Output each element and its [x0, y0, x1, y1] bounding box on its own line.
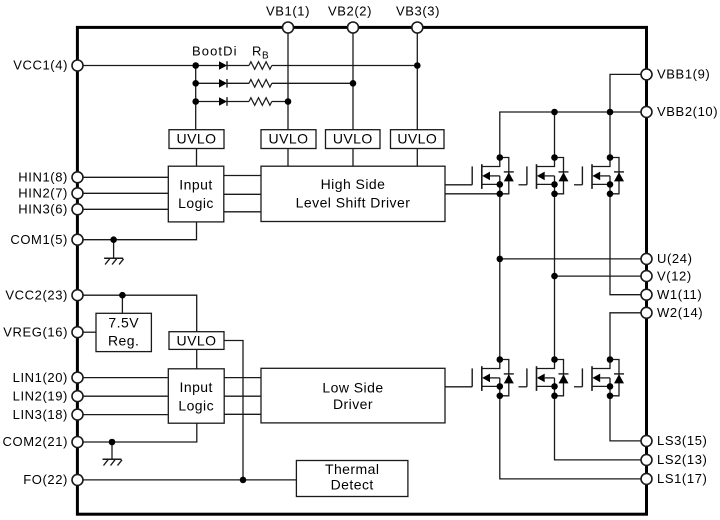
svg-text:UVLO: UVLO: [177, 332, 217, 348]
svg-text:UVLO: UVLO: [397, 130, 437, 146]
svg-text:V(12): V(12): [657, 268, 692, 283]
svg-text:VB3(3): VB3(3): [396, 3, 440, 18]
svg-text:High Side: High Side: [321, 176, 386, 192]
svg-text:UVLO: UVLO: [333, 130, 373, 146]
svg-text:FO(22): FO(22): [23, 472, 68, 487]
svg-text:LIN2(19): LIN2(19): [13, 388, 68, 403]
svg-text:UVLO: UVLO: [269, 130, 309, 146]
svg-text:HIN3(6): HIN3(6): [18, 202, 68, 217]
svg-text:B: B: [262, 51, 269, 62]
svg-text:7.5V: 7.5V: [108, 315, 139, 331]
svg-text:Logic: Logic: [178, 195, 214, 211]
svg-text:Detect: Detect: [331, 477, 374, 493]
svg-text:VCC1(4): VCC1(4): [13, 58, 68, 73]
svg-text:VB2(2): VB2(2): [328, 3, 372, 18]
svg-text:VREG(16): VREG(16): [3, 324, 68, 339]
svg-text:HIN2(7): HIN2(7): [18, 186, 68, 201]
svg-text:VBB2(10): VBB2(10): [657, 104, 718, 119]
svg-text:VB1(1): VB1(1): [266, 3, 310, 18]
svg-text:R: R: [252, 44, 262, 59]
svg-text:W1(11): W1(11): [657, 287, 702, 302]
svg-text:VCC2(23): VCC2(23): [5, 287, 68, 302]
svg-text:LS3(15): LS3(15): [657, 433, 707, 448]
svg-text:U(24): U(24): [657, 251, 693, 266]
svg-text:VBB1(9): VBB1(9): [657, 67, 710, 82]
svg-text:Input: Input: [180, 379, 213, 395]
svg-text:Input: Input: [179, 177, 212, 193]
svg-text:UVLO: UVLO: [177, 130, 217, 146]
svg-text:Low Side: Low Side: [322, 379, 383, 395]
svg-text:W2(14): W2(14): [657, 305, 703, 320]
svg-text:Thermal: Thermal: [325, 461, 380, 477]
svg-text:LS2(13): LS2(13): [657, 452, 707, 467]
svg-text:HIN1(8): HIN1(8): [18, 170, 68, 185]
svg-text:Level Shift Driver: Level Shift Driver: [296, 195, 411, 211]
svg-text:BootDi: BootDi: [192, 43, 238, 58]
svg-text:COM2(21): COM2(21): [3, 434, 68, 449]
svg-text:LIN3(18): LIN3(18): [13, 407, 68, 422]
svg-text:COM1(5): COM1(5): [10, 232, 68, 247]
svg-text:Reg.: Reg.: [108, 333, 139, 349]
svg-text:Logic: Logic: [178, 397, 214, 413]
svg-text:LIN1(20): LIN1(20): [13, 370, 68, 385]
svg-text:Driver: Driver: [333, 396, 373, 412]
svg-text:LS1(17): LS1(17): [657, 471, 707, 486]
